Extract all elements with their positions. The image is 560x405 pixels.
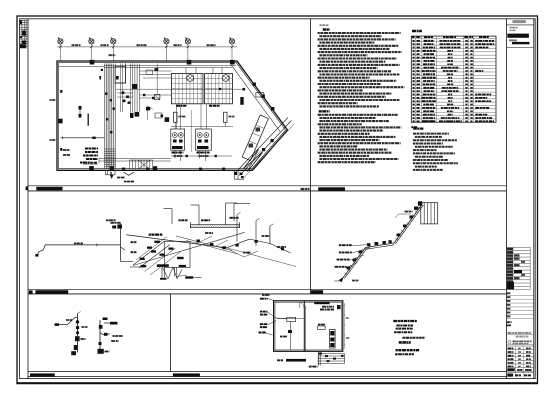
extra bottom wall column: [153, 166, 157, 170]
small rows under pill: [510, 27, 518, 29]
trench end verticals: [190, 222, 192, 228]
left wall marks: [50, 99, 56, 101]
label above stair: [83, 162, 97, 164]
room label black bar: [314, 302, 329, 304]
plan scale text before divider: [301, 188, 310, 190]
detail room inner wall lines: [275, 302, 341, 350]
expansion tank 2: [223, 112, 227, 122]
mid-plan valve cluster: [122, 92, 125, 95]
leader arrow 1: [171, 209, 173, 224]
building inner wall: [59, 63, 286, 169]
horizontal pipe pair to pumps: [99, 158, 171, 160]
equipment on diagonal wall: [256, 93, 264, 98]
interior partition near shaft: [125, 64, 127, 84]
misc pipes in middle of plan: [139, 94, 171, 96]
labels scattered: [205, 232, 213, 234]
labels near tanks: [179, 116, 186, 118]
last row long texts: [423, 120, 435, 122]
short branch diagonals: [200, 236, 212, 242]
divider band 3: [28, 370, 507, 372]
AHU labels: [176, 105, 187, 107]
pump manifold: [171, 155, 232, 157]
AHU1 fan circle: [187, 75, 194, 82]
axis bubbles with leaders: [58, 38, 235, 62]
valves on shaft pipes: [105, 93, 107, 95]
leader arrow 3: [225, 203, 227, 225]
dimension line over plan: [57, 46, 237, 48]
arrow at bottom: [339, 278, 343, 282]
crossing long line: [133, 232, 245, 265]
stair block near bottom wall: [130, 160, 153, 169]
bottom table column lines: [515, 346, 517, 377]
short wall stub: [87, 114, 89, 126]
floor plane diagonals: [133, 241, 164, 265]
revision table: [507, 247, 531, 289]
figure title bar: row3 left: [30, 373, 55, 376]
inner corridor line upper diagonal: [231, 65, 280, 131]
pump dots: [174, 134, 176, 136]
institute grey name row: [508, 332, 531, 334]
lower diagonal segment: [343, 248, 365, 278]
riser down-leg: [120, 245, 122, 262]
figure title bar: notes panel: [318, 187, 345, 190]
bottom-right pipe stack: [318, 353, 345, 355]
firm name black bar: [507, 34, 529, 38]
tank outline axon: [165, 241, 191, 267]
cluster fittings bars: [154, 241, 160, 243]
fittings on mains: [197, 240, 200, 243]
divider band 1: [28, 185, 507, 187]
underline for legend title: [399, 343, 411, 345]
cluster label top: [149, 234, 163, 236]
main sloped pipes: [126, 235, 226, 248]
wall columns: [90, 60, 95, 65]
valve on long pipe: [92, 137, 95, 139]
revision block heavy cell: [507, 282, 514, 289]
zigzag pipe: [163, 267, 183, 278]
door arc: [300, 302, 305, 308]
misc equipment blocks: [132, 84, 137, 89]
left room horizontal pipe: [277, 318, 304, 320]
horizontal runs to AHU1: [139, 70, 171, 72]
protrusion cluster marks: [240, 173, 243, 176]
left leader labels: [339, 244, 352, 246]
stair exit below wall: [106, 170, 116, 175]
risers with flags mid: [236, 215, 238, 242]
subtitle bars: [509, 39, 517, 41]
sheet bottom heavy border: [16, 382, 538, 384]
pump suction/discharge drops: [174, 150, 176, 158]
long pipe left area: [61, 137, 105, 139]
bottom wall window ticks: [122, 168, 125, 170]
section mark: [124, 172, 135, 175]
logo pill: [512, 20, 526, 23]
equipment left room: [287, 317, 296, 321]
fittings upper segment: [397, 234, 401, 237]
left room riser symbol: [79, 106, 82, 110]
top cluster: [414, 207, 418, 210]
tail pipe: [270, 244, 283, 250]
pipes cluster bottom right of plan: [234, 170, 236, 179]
fittings bottom segment: [347, 267, 351, 270]
figure title bar: plan: [36, 187, 62, 191]
title block left edge: [506, 19, 508, 379]
small texts near top: [405, 211, 413, 213]
building outer wall: [57, 61, 288, 170]
dim ticks right of wall: [344, 303, 346, 349]
leader labels left of room: [260, 298, 268, 300]
vertical divider row3: [170, 294, 172, 372]
pump skid 1: [171, 129, 185, 150]
AHU unit 1: [172, 74, 204, 104]
left margin strip line: [27, 19, 29, 379]
corridor wall along diagonal: [236, 118, 288, 173]
vertical drops: [161, 267, 163, 278]
room label texts right: [322, 306, 334, 308]
stair rungs in shaft: [105, 149, 116, 167]
junction box with X: [155, 94, 160, 99]
vertical divider rows 1-2: [310, 19, 312, 294]
diagonal to lower right: [176, 274, 187, 277]
connecting pipes AHU-pumps: [176, 104, 178, 129]
small riser with flag: [269, 226, 271, 244]
small marks: [507, 321, 512, 323]
small equip rects: [146, 70, 153, 75]
left edge labels: [131, 241, 137, 243]
AHU2 fan circle: [223, 75, 230, 82]
additional sloped mains: [176, 236, 232, 251]
left wall small marks: [60, 90, 62, 93]
index strip filled cells: [20, 20, 22, 24]
small room near shaft: [115, 66, 126, 83]
detail title bar below: [286, 359, 306, 362]
figure title bar: isometric right: [310, 290, 323, 293]
door marks second diagonal: [262, 148, 265, 151]
dim line between pumps: [190, 110, 192, 152]
cross pipe through AHU area: [116, 88, 244, 90]
last row cells: [507, 374, 513, 377]
bottom fields table: [507, 345, 534, 347]
note under table: [411, 126, 417, 128]
grille box: [421, 203, 438, 224]
fittings on landing: [367, 243, 370, 246]
left index table grid: [20, 20, 28, 48]
bottom dark row: [507, 368, 515, 371]
divider band 2: [28, 289, 507, 291]
stamp row: [508, 341, 511, 344]
pipe shaft A verticals: [105, 64, 116, 169]
figure title bar: row3 right: [173, 373, 200, 376]
pump skid 2: [196, 129, 212, 150]
expansion tank 1: [173, 112, 177, 122]
corridor third line: [243, 124, 295, 179]
diagonal equipment room: [242, 115, 268, 161]
leader arrow 4: [233, 204, 235, 222]
table header texts: [412, 36, 415, 38]
AHU unit 2: [205, 74, 233, 104]
figure title bar: isometric left: [35, 290, 68, 293]
construction notes title: [319, 110, 330, 112]
leader labels: [179, 219, 188, 221]
AHU tall unit: [330, 329, 336, 348]
detail room outer wall: [274, 301, 343, 352]
pipe shaft B verticals: [131, 64, 140, 113]
down arrow below plan: [111, 172, 113, 178]
title strip right edge: [533, 19, 535, 379]
window marks on diagonal wall: [253, 83, 256, 86]
pipe label text block: [85, 148, 98, 150]
project info rows: [507, 294, 534, 296]
header pipes along top wall: [105, 65, 237, 67]
right room tank: [318, 326, 326, 329]
drops from headers to AHUs: [185, 67, 187, 73]
pump labels: [172, 152, 184, 154]
hatched trench: [191, 225, 240, 228]
pipe elbows near tanks: [174, 122, 176, 129]
texts below plan: [117, 177, 125, 179]
upper diagonal segment: [394, 204, 422, 243]
landing segment: [366, 243, 395, 248]
interior partition wall: [303, 301, 305, 352]
long supply pipe: [37, 245, 121, 256]
pipe drop vertical: [318, 351, 320, 365]
escalator: [244, 150, 259, 169]
vertical risers right of shaft: [120, 64, 122, 113]
dimension texts: [72, 44, 81, 46]
small labels left: [63, 149, 70, 151]
top outside label: [262, 294, 270, 296]
leader arrow 2: [198, 205, 200, 225]
riser with valves: [120, 226, 122, 245]
table cell texts: [413, 40, 415, 42]
